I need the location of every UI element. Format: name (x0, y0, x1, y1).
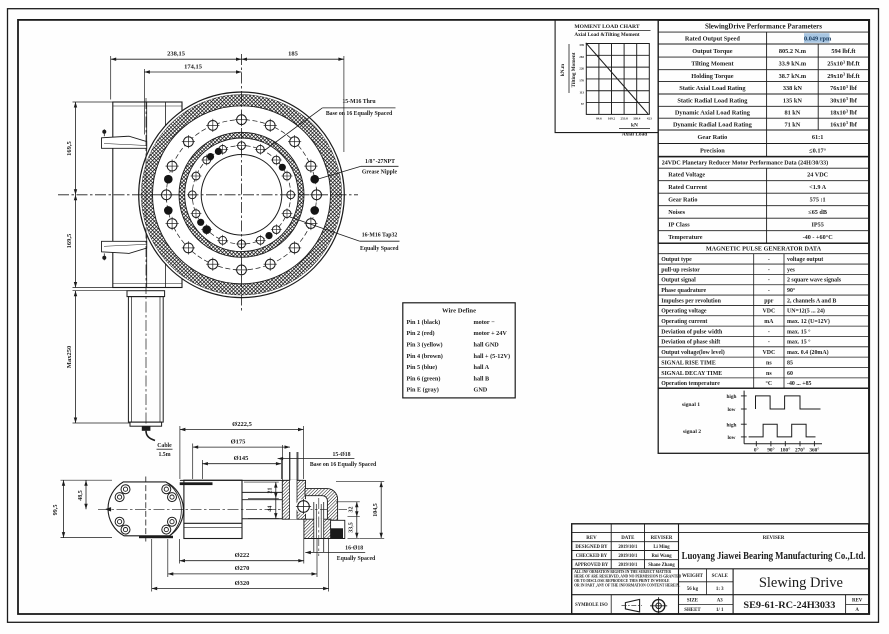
svg-text:85: 85 (787, 360, 793, 366)
svg-text:SE9-61-RC-24H3033: SE9-61-RC-24H3033 (743, 600, 835, 611)
svg-text:pull-up resistor: pull-up resistor (661, 267, 700, 273)
svg-text:Dynamic Axial Load Rating: Dynamic Axial Load Rating (675, 109, 751, 116)
svg-text:Max250: Max250 (66, 346, 73, 368)
dimension 99,5 (63, 480, 65, 537)
svg-text:WEIGHT: WEIGHT (682, 574, 704, 579)
svg-text:Deviation of pulse width: Deviation of pulse width (661, 329, 723, 335)
dimension O222,5 (179, 426, 181, 479)
svg-text:≤0.17°: ≤0.17° (809, 147, 826, 154)
outer ring bent section (hatched) (305, 489, 338, 521)
svg-text:Pin 2 (red): Pin 2 (red) (407, 330, 435, 337)
svg-text:REVISER: REVISER (763, 536, 785, 541)
motor capsule end view (barrel) (108, 482, 183, 536)
horizontal centerline (58, 194, 358, 196)
svg-text:180°: 180° (780, 446, 790, 453)
svg-text:33.9 kN.m: 33.9 kN.m (779, 61, 807, 68)
svg-text:MAGNETIC PULSE GENERATOR DATA: MAGNETIC PULSE GENERATOR DATA (706, 246, 822, 253)
svg-text:Output Torque: Output Torque (692, 48, 733, 55)
svg-text:yes: yes (787, 267, 796, 273)
dimension 33,5 (356, 517, 358, 539)
dimension 48,5 (85, 480, 87, 509)
svg-text:Holding Torque: Holding Torque (691, 73, 734, 80)
seal foot (solid) (331, 528, 343, 538)
svg-text:60: 60 (787, 371, 793, 377)
svg-text:Axial Load &Tilting Moment: Axial Load &Tilting Moment (574, 32, 639, 38)
svg-text:A3: A3 (717, 598, 724, 603)
gearbox housing (side rectangle) (113, 102, 182, 288)
outer rim line (141, 95, 341, 295)
svg-text:Li Ming: Li Ming (653, 545, 670, 550)
svg-text:Axial Load: Axial Load (622, 131, 648, 137)
svg-text:2019/10/1: 2019/10/1 (618, 545, 638, 550)
svg-text:motor −: motor − (474, 319, 496, 326)
svg-text:GND: GND (474, 387, 488, 394)
waveform axes (743, 391, 745, 444)
svg-text:423: 423 (647, 117, 652, 121)
svg-text:90°: 90° (767, 446, 774, 453)
dimension 169,5 upper (73, 101, 113, 103)
svg-text:44: 44 (267, 506, 273, 512)
capsule vertical centerline (145, 477, 147, 542)
svg-text:A: A (855, 608, 859, 613)
svg-text:Gear Ratio: Gear Ratio (698, 134, 728, 141)
signal 1 waveform (756, 396, 821, 409)
svg-text:360°: 360° (809, 446, 819, 453)
svg-text:104,5: 104,5 (373, 503, 379, 517)
bottom cover edge (139, 536, 173, 539)
svg-text:Base on 16 Equally Spaced: Base on 16 Equally Spaced (326, 111, 393, 117)
svg-text:24VDC Planetary Reducer Motor: 24VDC Planetary Reducer Motor Performanc… (662, 160, 828, 167)
svg-text:high: high (726, 422, 736, 428)
bolt hole slot through inner ring (290, 480, 298, 519)
signal 2 waveform (749, 424, 816, 437)
motor body (128, 297, 163, 423)
ring top plate edge (180, 479, 304, 481)
svg-text:1: 3: 1: 3 (716, 587, 724, 592)
dimension Max250 (73, 290, 128, 292)
svg-text:15-M16 Thru: 15-M16 Thru (342, 99, 376, 105)
svg-text:Operating current: Operating current (661, 319, 707, 325)
upper mounting tab (102, 136, 147, 148)
svg-text:174,15: 174,15 (184, 63, 203, 70)
title block frame (572, 524, 869, 614)
outer bolt circle (dashed) (166, 120, 316, 270)
dimension O270 (167, 539, 169, 577)
svg-text:DATE: DATE (621, 536, 635, 541)
title block grid lines (572, 532, 869, 534)
svg-text:1/ 1: 1/ 1 (716, 608, 724, 613)
svg-text:33,5: 33,5 (349, 522, 355, 533)
svg-text:DESIGNED BY: DESIGNED BY (575, 545, 608, 550)
flange hole centerline (318, 498, 320, 556)
pinion bolt (296, 499, 311, 514)
svg-text:84.6: 84.6 (596, 117, 602, 121)
inner crosshatched ring (179, 132, 304, 257)
dimension 21 (244, 481, 279, 483)
svg-text:169.2: 169.2 (608, 117, 616, 121)
projection cone symbol (625, 599, 639, 612)
svg-text:Shane Zhang: Shane Zhang (648, 563, 675, 568)
dimension 32 (336, 501, 360, 503)
motor performance table (658, 157, 869, 244)
pinion neck bottom (242, 518, 304, 520)
svg-text:71 kN: 71 kN (784, 121, 800, 128)
svg-text:ppr: ppr (764, 298, 774, 304)
svg-text:2019/10/1: 2019/10/1 (618, 554, 638, 559)
svg-text:Output type: Output type (661, 257, 692, 263)
svg-text:hall + (5-12V): hall + (5-12V) (474, 353, 511, 360)
inner bolt circle (dashed) (192, 146, 290, 244)
svg-text:mA: mA (764, 319, 774, 325)
svg-text:low: low (728, 435, 736, 441)
inner bolt holes 16-M16 (287, 191, 295, 199)
lower tab screw (102, 256, 106, 260)
svg-text:VDC: VDC (762, 309, 775, 315)
svg-text:Precision: Precision (700, 147, 725, 154)
svg-text:hall GND: hall GND (474, 342, 500, 349)
dimension O320 (151, 539, 153, 592)
svg-text:169,5: 169,5 (66, 140, 73, 155)
hole extension lines top (282, 445, 284, 481)
dimension 174,15 (143, 69, 145, 135)
svg-text:135 kN: 135 kN (783, 97, 803, 104)
svg-text:0°: 0° (754, 446, 759, 453)
svg-text:Operation temperature: Operation temperature (661, 381, 720, 387)
inner ring plugs (filled) (279, 164, 286, 171)
wire define box (403, 303, 515, 398)
svg-text:low: low (728, 407, 736, 413)
svg-text:-: - (768, 267, 770, 273)
svg-text:Pin 3 (yellow): Pin 3 (yellow) (407, 342, 443, 349)
svg-text:Rui Wang: Rui Wang (651, 554, 672, 559)
svg-text:2019/10/1: 2019/10/1 (618, 563, 638, 568)
svg-text:-: - (768, 278, 770, 284)
projection target symbol (652, 600, 664, 612)
svg-text:-40 - +60°C: -40 - +60°C (803, 234, 833, 241)
vertical centerline (241, 54, 243, 312)
svg-text:SIGNAL RISE TIME: SIGNAL RISE TIME (661, 360, 716, 366)
slewing ring outer circle (139, 92, 345, 298)
svg-text:805.2 N.m: 805.2 N.m (779, 48, 807, 55)
svg-text:°C: °C (766, 380, 773, 387)
svg-text:48,5: 48,5 (78, 490, 84, 501)
svg-text:max. 15 °: max. 15 ° (787, 328, 811, 335)
block top cover edge (180, 482, 213, 485)
bore circle (201, 155, 282, 236)
svg-text:OR TO DISCLOSE REPRODUCE THIS: OR TO DISCLOSE REPRODUCE THIS PRINT IN W… (574, 579, 670, 583)
svg-text:238,15: 238,15 (167, 51, 186, 58)
svg-text:Static Radial Load Rating: Static Radial Load Rating (677, 97, 748, 104)
svg-text:Pin 5 (blue): Pin 5 (blue) (407, 364, 438, 371)
svg-text:SIGNAL DECAY TIME: SIGNAL DECAY TIME (661, 371, 722, 377)
svg-text:99,5: 99,5 (52, 505, 59, 516)
outer crosshatched ring (141, 95, 341, 295)
moment load chart box (555, 20, 658, 133)
svg-text:Ø145: Ø145 (234, 455, 250, 462)
cable gland (142, 426, 151, 431)
svg-text:185: 185 (288, 51, 299, 58)
svg-text:Phase quadrature: Phase quadrature (661, 288, 706, 294)
leader 15-M16 (263, 108, 322, 152)
svg-text:16-Ø18: 16-Ø18 (345, 546, 363, 552)
leader grease nipple (317, 166, 362, 179)
svg-text:226: 226 (579, 67, 584, 71)
svg-text:motor + 24V: motor + 24V (474, 330, 508, 337)
svg-text:15-Ø18: 15-Ø18 (332, 452, 350, 458)
dimension 104,5 (336, 481, 384, 483)
svg-text:-: - (768, 329, 770, 335)
svg-text:OR IN PART ,ANY OF THE INFORMA: OR IN PART ,ANY OF THE INFORMATION CONTE… (574, 584, 680, 588)
motor axis centerline (145, 98, 147, 430)
svg-text:VDC: VDC (762, 350, 775, 356)
svg-text:SlewingDrive Performance Param: SlewingDrive Performance Parameters (705, 22, 822, 30)
svg-text:SIZE: SIZE (687, 598, 699, 603)
svg-text:UN=12(5 ... 24): UN=12(5 ... 24) (787, 308, 825, 315)
seal foot outline (331, 520, 345, 538)
svg-text:Wire Define: Wire Define (442, 307, 476, 314)
svg-text:APPROVED BY: APPROVED BY (575, 563, 609, 568)
svg-text:Output voltage(low level): Output voltage(low level) (661, 349, 725, 356)
pinion shaft top (242, 499, 282, 501)
svg-text:hall B: hall B (474, 375, 490, 382)
svg-text:38.7 kN.m: 38.7 kN.m (779, 73, 807, 80)
svg-text:SYMBOLE ISO: SYMBOLE ISO (575, 603, 608, 608)
svg-text:Ø270: Ø270 (235, 565, 250, 572)
svg-text:575 :1: 575 :1 (810, 197, 826, 204)
svg-text:high: high (726, 394, 736, 400)
svg-text:Ø175: Ø175 (231, 439, 247, 446)
svg-text:Rated Voltage: Rated Voltage (668, 172, 705, 179)
svg-text:270°: 270° (795, 446, 805, 453)
svg-text:81 kN: 81 kN (784, 109, 800, 116)
svg-text:signal 2: signal 2 (683, 429, 701, 435)
dimension 185 (343, 56, 345, 152)
svg-text:170: 170 (579, 78, 584, 82)
svg-text:REV: REV (852, 598, 863, 603)
svg-text:Static Axial Load Rating: Static Axial Load Rating (679, 85, 746, 92)
svg-text:283: 283 (579, 55, 584, 59)
dimension O222 bottom (179, 539, 181, 564)
svg-text:Equally Spaced: Equally Spaced (337, 556, 376, 562)
flange hole edges (313, 502, 315, 552)
svg-text:max. 12 (U=12V): max. 12 (U=12V) (787, 318, 830, 325)
svg-text:max. 0.4 (20mA): max. 0.4 (20mA) (787, 349, 829, 356)
svg-text:76x103 lbf: 76x103 lbf (830, 84, 858, 92)
svg-text:<1.9 A: <1.9 A (809, 184, 826, 191)
svg-text:Equally Spaced: Equally Spaced (360, 246, 399, 252)
svg-text:Deviation of phase shift: Deviation of phase shift (661, 340, 720, 346)
svg-text:18x103 lbf: 18x103 lbf (830, 108, 858, 116)
svg-text:Operating voltage: Operating voltage (661, 309, 707, 315)
svg-text:16x103 lbf: 16x103 lbf (830, 120, 858, 128)
svg-text:kN.m: kN.m (560, 63, 566, 76)
svg-text:0.049 rpm: 0.049 rpm (804, 35, 832, 42)
svg-text:Slewing Drive: Slewing Drive (759, 575, 843, 591)
svg-text:IP55: IP55 (811, 222, 823, 229)
motor flange (127, 291, 165, 297)
left section pointer (105, 507, 112, 511)
svg-text:169,5: 169,5 (66, 233, 73, 248)
capsule bolt holes (115, 493, 124, 502)
svg-text:IP Class: IP Class (668, 222, 690, 229)
chart load line (586, 43, 648, 114)
svg-text:Impulses per revolution: Impulses per revolution (661, 298, 721, 304)
svg-text:Pin 6 (green): Pin 6 (green) (407, 375, 441, 382)
svg-text:253.8: 253.8 (621, 117, 629, 121)
svg-text:Temperature: Temperature (668, 234, 703, 241)
svg-text:1/8"-27NPT: 1/8"-27NPT (365, 159, 395, 165)
svg-text:113: 113 (579, 90, 584, 94)
svg-text:REVISER: REVISER (651, 536, 673, 541)
flange bottom edge (304, 538, 345, 540)
svg-text:kN: kN (631, 122, 638, 128)
svg-text:339: 339 (579, 43, 584, 47)
svg-text:Ø320: Ø320 (235, 580, 250, 587)
svg-text:2 square wave signals: 2 square wave signals (787, 278, 842, 284)
svg-text:338.4: 338.4 (633, 117, 641, 121)
svg-text:≤65 dB: ≤65 dB (808, 209, 827, 216)
svg-text:MOMENT LOAD CHART: MOMENT LOAD CHART (574, 24, 640, 30)
svg-text:61:1: 61:1 (812, 134, 824, 141)
svg-text:SCALE: SCALE (712, 574, 729, 579)
svg-text:594 lbf.ft: 594 lbf.ft (831, 48, 856, 55)
svg-text:56 kg: 56 kg (687, 587, 699, 592)
svg-text:Noises: Noises (668, 209, 685, 216)
upper tab screw (102, 130, 106, 134)
grease fittings on outer ring (filled) (310, 175, 319, 184)
inner ring section (hatched strip) (282, 480, 305, 519)
svg-text:Ø222: Ø222 (235, 552, 250, 559)
dimension 238,15 (110, 56, 112, 100)
svg-text:-: - (768, 257, 770, 263)
svg-text:ALL INF ORMATION RIGHTS IN THE: ALL INF ORMATION RIGHTS IN THE SUBJECT M… (574, 570, 671, 574)
svg-text:32: 32 (349, 507, 355, 513)
svg-text:Ø222,5: Ø222,5 (232, 421, 252, 428)
svg-text:Dynamic Radial Load Rating: Dynamic Radial Load Rating (673, 121, 753, 128)
flange bolt hole gap (314, 519, 324, 540)
svg-text:CHECKED BY: CHECKED BY (576, 554, 608, 559)
svg-text:SHEET: SHEET (684, 608, 701, 613)
svg-text:REV: REV (586, 536, 597, 541)
svg-text:Cable: Cable (157, 443, 172, 449)
dimension O175 (192, 444, 194, 480)
svg-text:-40 ... +85: -40 ... +85 (787, 381, 812, 387)
svg-text:Pin 4 (brown): Pin 4 (brown) (407, 353, 443, 360)
svg-text:voltage output: voltage output (787, 257, 823, 263)
svg-text:24 VDC: 24 VDC (807, 172, 828, 179)
svg-text:Tilting Moment: Tilting Moment (691, 61, 734, 68)
svg-text:Grease Nipple: Grease Nipple (362, 170, 398, 176)
cable (146, 431, 155, 441)
svg-text:-: - (768, 288, 770, 294)
svg-text:Output signal: Output signal (661, 278, 696, 284)
svg-text:1.5m: 1.5m (158, 452, 170, 458)
svg-text:16-M16 Tap32: 16-M16 Tap32 (362, 233, 398, 239)
svg-text:90°: 90° (787, 287, 796, 294)
svg-text:ns: ns (766, 371, 772, 377)
svg-text:2, channels A and B: 2, channels A and B (787, 298, 836, 304)
svg-text:30x103 lbf: 30x103 lbf (830, 96, 858, 104)
motor end cap (130, 422, 162, 426)
svg-text:Tilting Moment: Tilting Moment (571, 52, 577, 87)
section horizontal centerline (98, 508, 347, 510)
svg-text:338 kN: 338 kN (783, 85, 803, 92)
svg-text:21: 21 (267, 488, 273, 494)
gearbox block section (184, 480, 242, 538)
svg-text:hall A: hall A (474, 364, 490, 371)
svg-text:Pin E (gray): Pin E (gray) (407, 387, 439, 394)
svg-text:-: - (768, 340, 770, 346)
magnetic pulse generator table (658, 243, 869, 388)
dimension O145 (201, 460, 203, 479)
svg-text:Rated Output Speed: Rated Output Speed (685, 35, 740, 42)
leader 16-M16 (290, 217, 360, 241)
svg-text:Gear Ratio: Gear Ratio (668, 197, 697, 204)
svg-text:signal 1: signal 1 (682, 402, 700, 408)
svg-text:HERE OF ARE RESERVED, AND NO P: HERE OF ARE RESERVED, AND NO PERMISSION … (574, 574, 681, 578)
svg-text:Base on 16 Equally Spaced: Base on 16 Equally Spaced (310, 462, 377, 468)
chart grid (586, 44, 649, 115)
svg-text:Luoyang Jiawei Bearing Manufac: Luoyang Jiawei Bearing Manufacturing Co.… (682, 550, 866, 562)
svg-text:Rated Current: Rated Current (668, 184, 708, 191)
bottom flange (hatched) (304, 519, 331, 538)
dimension 169,5 lower (73, 287, 113, 289)
performance parameters table frame (658, 20, 869, 156)
outer bolt holes 15-M16 (312, 190, 322, 200)
lower mounting tab (102, 241, 147, 253)
signal waveform box (658, 388, 869, 453)
svg-text:ns: ns (766, 360, 772, 366)
svg-text:max. 15 °: max. 15 ° (787, 339, 811, 346)
pinion neck top (242, 491, 282, 493)
dimension 44 (275, 498, 277, 518)
outer hatch inner boundary (153, 106, 331, 284)
svg-text:57: 57 (581, 102, 585, 106)
svg-text:Pin 1 (black): Pin 1 (black) (407, 319, 441, 326)
